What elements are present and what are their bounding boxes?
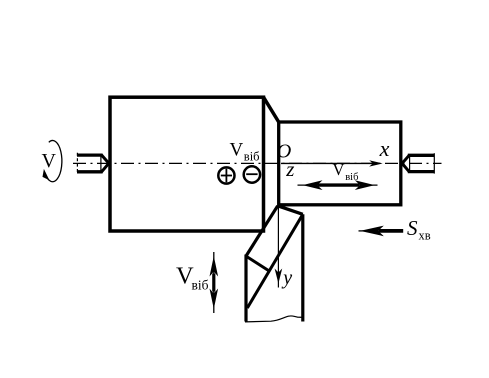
cutting tool: face edge [246, 256, 270, 271]
cutting tool body: left vertical edge [244, 255, 247, 322]
right tailstock center: cone base line [409, 154, 411, 172]
svg-text:V: V [42, 150, 57, 172]
rotation direction elliptical arrow around V [45, 141, 62, 182]
svg-text:y: y [281, 267, 292, 289]
left tailstock center: cone base line [100, 154, 102, 173]
right tailstock center: bottom bar [408, 170, 435, 173]
y axis arrowhead [275, 269, 283, 284]
vertical double-headed vibration arrow [213, 252, 215, 313]
left tailstock center: bottom bar [77, 170, 103, 173]
right tailstock center: top bar [408, 154, 435, 157]
svg-text:S: S [407, 216, 418, 240]
x axis arrowhead [369, 160, 383, 166]
svg-text:віб: віб [192, 277, 209, 292]
transition cone edge (slant between large and small diameter) [264, 97, 279, 122]
left tailstock center: dashed rear edge [76, 153, 78, 174]
circle with plus (vibration phase node) [218, 167, 234, 183]
workpiece large cylinder (big rectangle) [110, 97, 264, 231]
cutting tool body: left slant edge from tip [246, 206, 278, 256]
svg-text:z: z [285, 157, 294, 181]
cutting tool body: right vertical edge [301, 214, 304, 321]
svg-text:V: V [230, 140, 244, 161]
cutting tool: long internal diagonal [247, 214, 302, 308]
right tailstock center: rear edge [433, 153, 435, 173]
turned small cylinder (small rectangle) [279, 122, 401, 205]
left tailstock center: top bar [77, 153, 103, 156]
x axis arrow line [281, 162, 372, 164]
cutting tool body: top edge from tip [278, 206, 303, 215]
svg-text:V: V [333, 160, 345, 179]
svg-text:x: x [379, 136, 390, 161]
y axis arrow line (downward from tool tip) [277, 206, 279, 288]
circle with minus (vibration phase node) [244, 166, 260, 182]
right tailstock center: cone tip [402, 155, 410, 172]
horizontal double-headed vibration arrow [298, 184, 378, 186]
left tailstock center: cone tip [101, 155, 109, 173]
feed arrow S_xv (pointing left) [359, 230, 369, 232]
cutting tool: wavy break line at bottom [245, 316, 304, 322]
centerline (axis of rotation, dash-dot) [73, 162, 442, 164]
svg-text:віб: віб [244, 150, 260, 164]
svg-text:хв: хв [419, 229, 431, 243]
rotation arrowhead [43, 169, 50, 180]
